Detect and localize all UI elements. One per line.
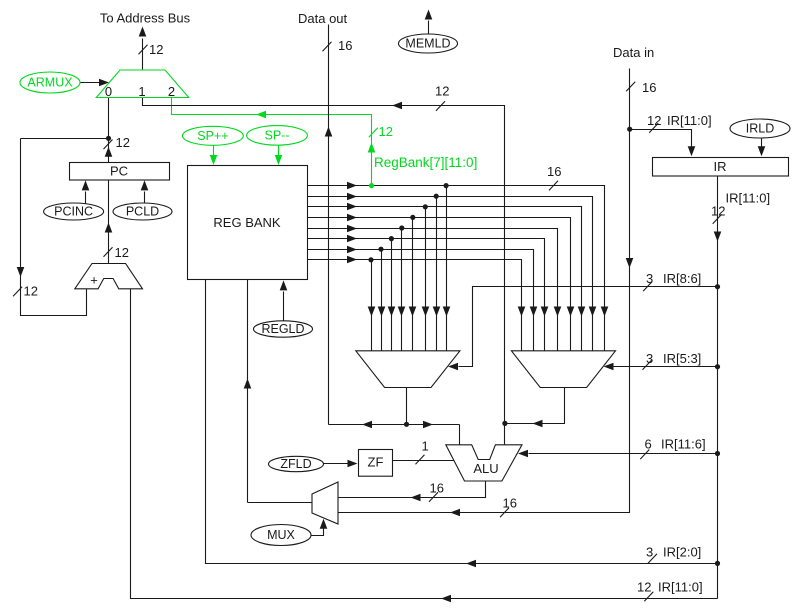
control ZFLD — [269, 456, 324, 471]
wire REG BANK output row 6 — [308, 239, 545, 351]
wire IR[8:6] select to left mux — [459, 287, 718, 367]
node left mux output tee — [404, 422, 409, 427]
wire row 4 to left mux — [412, 218, 414, 351]
svg-text:IR[2:0]: IR[2:0] — [663, 545, 701, 560]
wire row 8 to left mux — [371, 260, 373, 351]
wire data in to IR input — [630, 130, 692, 147]
svg-text:0: 0 — [105, 84, 112, 99]
wire RegBank[7][11:0] to mux input 2 — [172, 98, 372, 186]
node row 8 branch — [368, 257, 373, 262]
mux ARMUX address mux — [96, 70, 189, 98]
svg-text:1: 1 — [138, 84, 145, 99]
svg-text:3: 3 — [646, 271, 653, 286]
svg-text:12: 12 — [711, 204, 725, 219]
wire MEMLD control — [428, 21, 430, 35]
svg-text:16: 16 — [503, 496, 517, 511]
label 16 on row 1 — [549, 181, 558, 191]
svg-text:IRLD: IRLD — [746, 122, 774, 136]
mux left operand selector — [356, 351, 460, 388]
svg-text:ALU: ALU — [473, 461, 498, 476]
wire row 7 to left mux — [381, 250, 383, 351]
control MUX — [251, 525, 311, 546]
wire row 3 to left mux — [425, 207, 427, 351]
svg-text:SP++: SP++ — [197, 129, 228, 143]
wire MUX select control — [312, 529, 324, 536]
node row 6 branch — [389, 236, 394, 241]
wire ALU output to MUX input — [339, 482, 486, 498]
control SP-- — [247, 126, 308, 146]
wire row 2 to left mux — [436, 197, 438, 351]
register PC — [70, 163, 170, 181]
wire data in bus — [339, 69, 630, 513]
wire ALU to ZF — [393, 460, 454, 462]
wire right mux output to ALU right input — [505, 388, 565, 424]
wire REG BANK output row 7 — [308, 250, 534, 351]
svg-text:12: 12 — [637, 580, 651, 595]
svg-text:12: 12 — [379, 124, 393, 139]
svg-text:ZFLD: ZFLD — [280, 457, 311, 471]
node RegBank7 tap on row 1 — [369, 183, 374, 188]
wire REG BANK output row 3 — [308, 207, 582, 351]
wire ZFLD control — [324, 463, 348, 465]
wire register value to mux input 1 and ALU right input — [143, 98, 505, 445]
svg-text:16: 16 — [547, 164, 561, 179]
register file REG BANK — [188, 166, 308, 280]
svg-text:IR[5:3]: IR[5:3] — [663, 351, 701, 366]
node row 4 branch — [410, 215, 415, 220]
wire PCLD control — [144, 192, 146, 204]
node IR[5:3] branch — [715, 364, 720, 369]
wire IR[5:3] select to right mux — [614, 366, 718, 368]
control PCINC — [44, 203, 104, 220]
mux MUX writeback selector — [312, 482, 338, 524]
svg-text:3: 3 — [646, 351, 653, 366]
wire PCINC control — [85, 192, 87, 204]
svg-text:Data out: Data out — [298, 11, 348, 26]
svg-text:PC: PC — [110, 164, 128, 179]
wire IRLD control — [761, 139, 763, 147]
node IR[11:6] branch — [715, 451, 720, 456]
control REGLD — [254, 321, 313, 337]
svg-text:To Address Bus: To Address Bus — [100, 11, 191, 26]
wire REG BANK output row 2 — [308, 197, 593, 351]
svg-text:16: 16 — [338, 38, 352, 53]
control SP++ — [183, 126, 244, 145]
svg-text:MUX: MUX — [267, 528, 295, 542]
svg-text:12: 12 — [647, 113, 661, 128]
svg-text:IR[11:0]: IR[11:0] — [667, 113, 712, 128]
wire SP++ control — [213, 145, 215, 156]
node row 5 branch — [399, 225, 404, 230]
control ARMUX — [20, 72, 80, 93]
svg-text:12: 12 — [24, 284, 38, 299]
svg-text:1: 1 — [422, 439, 429, 454]
node row 2 branch — [434, 194, 439, 199]
alu ALU — [446, 445, 522, 481]
register ZF zero flag — [359, 450, 393, 477]
wire left mux output — [406, 388, 408, 425]
wire row 5 to left mux — [401, 229, 403, 351]
wire MUX output to REG BANK write data — [247, 280, 249, 503]
svg-text:12: 12 — [149, 42, 163, 57]
node IR[2:0] branch — [715, 561, 720, 566]
node row 3 branch — [423, 204, 428, 209]
svg-text:REG BANK: REG BANK — [213, 215, 281, 230]
svg-text:3: 3 — [646, 545, 653, 560]
node data in to IR branch — [627, 127, 632, 132]
svg-text:PCINC: PCINC — [54, 205, 93, 219]
wire SP-- control — [278, 145, 280, 156]
control MEMLD — [399, 34, 458, 53]
wire ARMUX control to mux — [81, 82, 100, 84]
svg-text:SP--: SP-- — [265, 129, 290, 143]
svg-text:MEMLD: MEMLD — [405, 37, 450, 51]
svg-text:12: 12 — [116, 135, 130, 150]
wire REG BANK output row 5 — [308, 229, 558, 351]
svg-text:+: + — [90, 273, 98, 288]
control IRLD — [730, 119, 790, 138]
register IR — [653, 158, 789, 177]
wire adder output to PC — [108, 181, 110, 264]
wire PC output to mux input 0 — [108, 98, 110, 163]
wire IR output bus — [717, 176, 719, 599]
wire IR[2:0] to REG BANK address — [206, 280, 718, 564]
svg-text:16: 16 — [642, 80, 656, 95]
svg-text:IR: IR — [714, 159, 727, 174]
wire REG BANK output row 1 — [308, 186, 605, 351]
wire row 6 to left mux — [391, 239, 393, 351]
wire REG BANK output row 8 — [308, 260, 522, 351]
wire data out bus — [328, 25, 330, 425]
svg-text:IR[8:6]: IR[8:6] — [663, 271, 701, 286]
svg-text:ARMUX: ARMUX — [27, 76, 73, 90]
wire IR[11:6] select to ALU — [529, 453, 718, 455]
wire IR[11:0] jump target to adder right input — [131, 289, 718, 599]
node row 1 branch — [444, 183, 449, 188]
mux right operand selector — [511, 351, 615, 388]
control PCLD — [113, 203, 172, 220]
wire PC value to adder left input — [21, 138, 109, 140]
svg-text:RegBank[7][11:0]: RegBank[7][11:0] — [374, 155, 477, 170]
node ALU right input junction — [502, 421, 507, 426]
adder + — [75, 264, 143, 289]
wire row 1 to left mux — [446, 186, 448, 351]
svg-text:16: 16 — [430, 481, 444, 496]
svg-text:IR[11:0]: IR[11:0] — [658, 580, 703, 595]
svg-text:12: 12 — [435, 84, 449, 99]
wire left mux output to data out and ALU left input — [329, 424, 460, 426]
svg-text:12: 12 — [115, 245, 129, 260]
wire address bus output arrow — [142, 39, 144, 71]
svg-text:REGLD: REGLD — [261, 322, 304, 336]
svg-text:IR[11:0]: IR[11:0] — [726, 191, 771, 206]
wire REGLD control — [283, 292, 285, 321]
node row 7 branch — [378, 247, 383, 252]
svg-text:2: 2 — [168, 84, 175, 99]
node PC bus junction — [106, 136, 111, 141]
svg-text:ZF: ZF — [368, 455, 384, 470]
svg-text:Data in: Data in — [613, 45, 654, 60]
svg-text:IR[11:6]: IR[11:6] — [661, 437, 706, 452]
wire REG BANK output row 4 — [308, 218, 571, 351]
svg-text:6: 6 — [645, 437, 652, 452]
node IR[8:6] branch — [715, 284, 720, 289]
svg-text:PCLD: PCLD — [126, 205, 159, 219]
